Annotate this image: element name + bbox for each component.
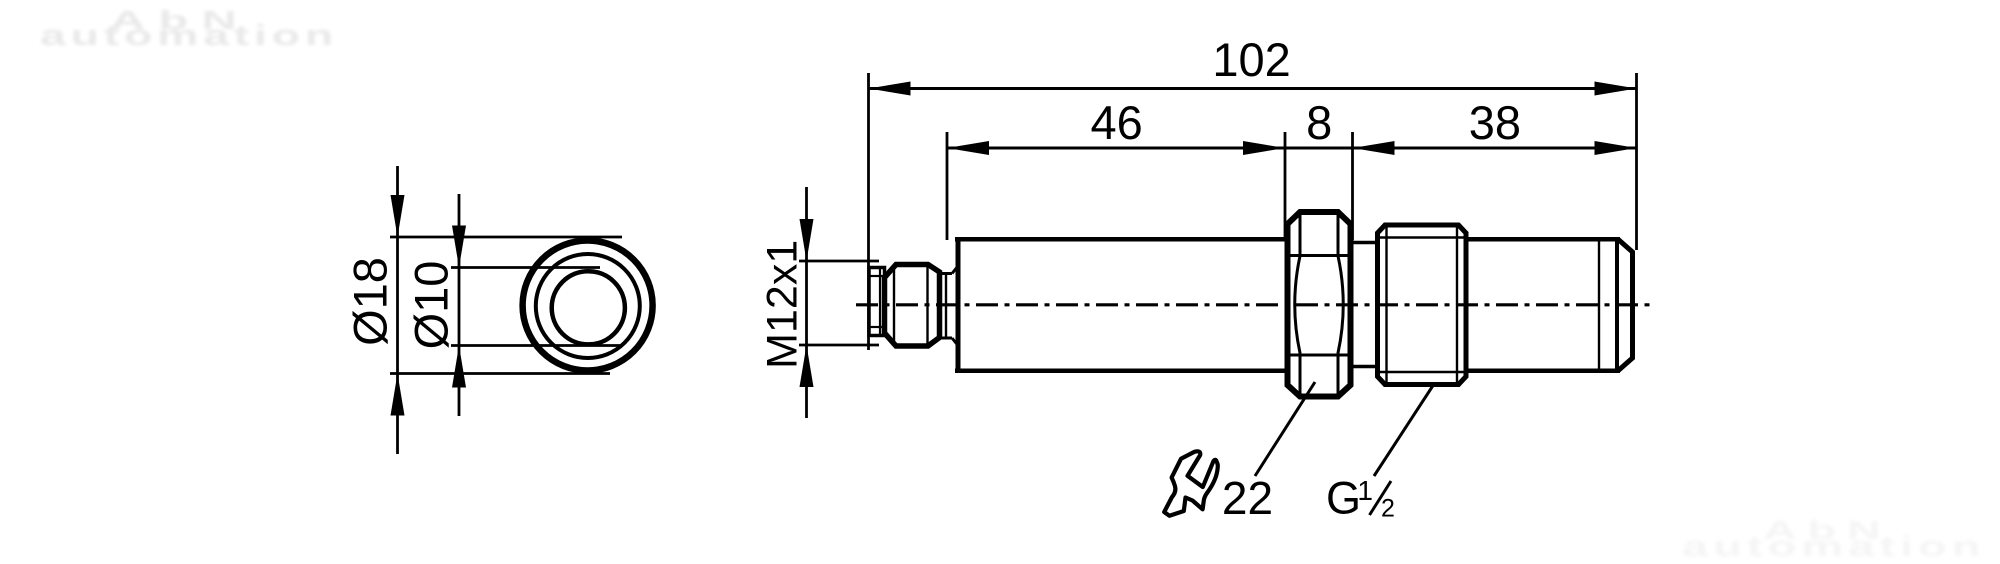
svg-text:Ø10: Ø10 (405, 261, 458, 350)
dimension line Ø10 (458, 194, 461, 416)
fraction slash (1370, 481, 1392, 515)
hex nut outline (1288, 212, 1351, 397)
body bottom edge (955, 369, 1289, 374)
front view inner circle Ø10 (552, 271, 625, 344)
extension line 8 right (1351, 132, 1354, 240)
svg-text:automation: automation (1682, 531, 1986, 563)
svg-text:M12x1: M12x1 (759, 240, 807, 369)
dimension line 8 (1285, 147, 1353, 150)
leader line wrench 22 (1255, 382, 1315, 476)
extension line Ø10 bottom (451, 344, 621, 347)
arrow M12x1 top (800, 219, 814, 261)
extension line Ø18 top (390, 236, 622, 239)
svg-text:38: 38 (1469, 96, 1521, 149)
rear end face (1618, 239, 1633, 371)
svg-text:Ø18: Ø18 (344, 257, 397, 346)
connector nut (885, 265, 940, 347)
connector thread inner line top (869, 275, 885, 277)
arrow 46 right (1243, 141, 1285, 155)
dimension line 102 (869, 87, 1637, 90)
G half thread outline (1378, 225, 1467, 385)
svg-text:102: 102 (1212, 33, 1290, 86)
body front face (956, 239, 961, 371)
extension line 102 left (867, 73, 870, 350)
extension line Ø18 bottom (390, 372, 610, 375)
extension line 46 left (946, 132, 949, 240)
rear cap chamfer tangent (1615, 239, 1619, 371)
front view middle circle (536, 254, 640, 358)
front view outer circle Ø18 (523, 241, 653, 371)
extension line M12x1 top (799, 260, 879, 263)
connector neck bottom (940, 337, 953, 340)
body top edge (955, 237, 1289, 242)
centerline (856, 303, 1650, 306)
rear body bottom edge (1466, 369, 1620, 374)
arrow Ø10 top (452, 226, 466, 268)
svg-text:8: 8 (1306, 96, 1332, 149)
connector thread mid line (879, 268, 881, 336)
dimension line Ø18 (396, 166, 399, 454)
G half thread minor line bottom (1378, 371, 1467, 373)
G half thread minor line top (1378, 236, 1467, 238)
arrow 102 right (1595, 82, 1637, 96)
svg-text:22: 22 (1222, 472, 1273, 524)
svg-text:G: G (1326, 473, 1361, 524)
leader line G half (1374, 384, 1434, 476)
connector nut facet line left (893, 266, 895, 345)
hex nut facet curve left (1295, 214, 1300, 395)
dimension line M12x1 (805, 187, 808, 418)
svg-text:automation: automation (40, 20, 338, 52)
svg-text:46: 46 (1090, 96, 1142, 149)
neck hex to thread bottom (1351, 365, 1378, 369)
dimension line 38 (1353, 147, 1637, 150)
wrench icon (1164, 451, 1218, 515)
connector collar line (945, 272, 947, 339)
svg-text:2: 2 (1381, 495, 1395, 523)
neck fillet top (952, 266, 958, 274)
connector thread inner line bottom (869, 326, 885, 328)
arrow Ø18 top (391, 195, 405, 237)
neck hex to thread top (1351, 241, 1378, 245)
neck fillet bottom (952, 338, 958, 346)
connector nut facet line right (926, 266, 928, 345)
G half thread chamfer tangent right (1456, 225, 1458, 385)
dimension line 46 (947, 147, 1285, 150)
arrow 38 right (1595, 141, 1637, 155)
arrow 102 left (869, 82, 911, 96)
hex nut chamfer line top (1290, 254, 1348, 257)
arrow Ø10 bottom (452, 346, 466, 388)
svg-text:1: 1 (1357, 475, 1373, 506)
connector neck top (940, 272, 953, 275)
extension line 102 right (1635, 73, 1638, 250)
connector thread body (869, 268, 885, 336)
arrow 46 left (947, 141, 989, 155)
G half thread chamfer tangent left (1385, 225, 1387, 385)
arrow M12x1 bottom (800, 345, 814, 387)
extension line Ø10 top (451, 266, 600, 269)
hex nut facet curve right (1338, 214, 1343, 395)
extension line M12x1 bottom (799, 344, 879, 347)
arrow Ø18 bottom (391, 374, 405, 416)
rear cap parting line (1598, 239, 1600, 371)
hex nut chamfer line bottom (1290, 354, 1348, 357)
rear body top edge (1466, 237, 1620, 242)
arrow 38 left (1353, 141, 1395, 155)
extension line 8 left (1284, 132, 1287, 240)
